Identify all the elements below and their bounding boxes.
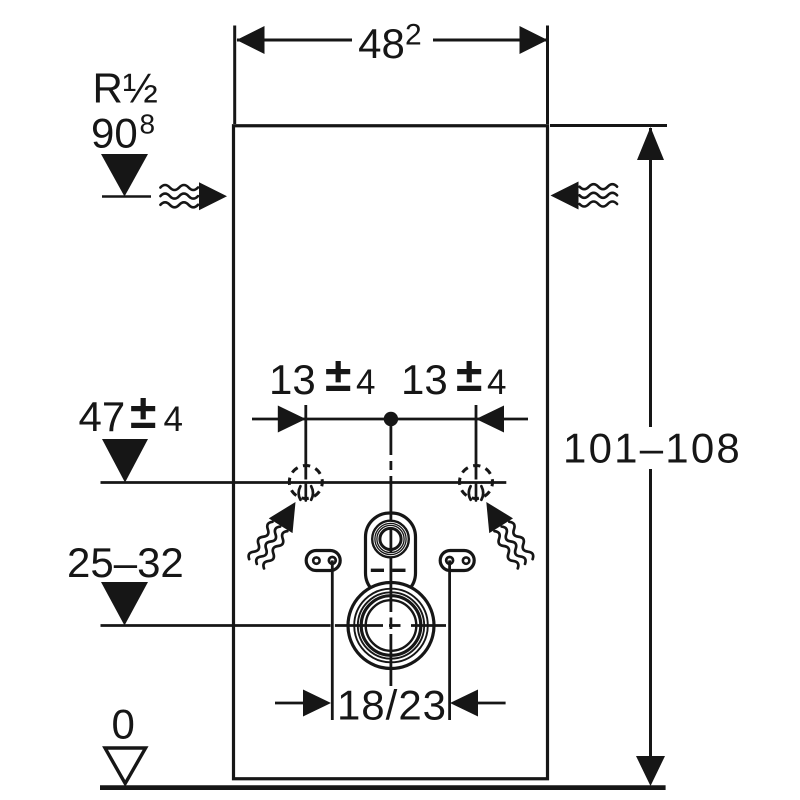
svg-text:13: 13	[269, 356, 316, 403]
svg-text:18/23: 18/23	[337, 682, 447, 729]
svg-text:0: 0	[112, 701, 135, 748]
svg-text:2: 2	[405, 19, 422, 52]
svg-text:48: 48	[358, 20, 405, 67]
svg-text:±: ±	[325, 349, 351, 402]
svg-text:13: 13	[401, 356, 448, 403]
svg-text:4: 4	[164, 400, 183, 439]
svg-text:8: 8	[140, 109, 156, 140]
svg-text:4: 4	[487, 363, 506, 402]
svg-text:47: 47	[79, 393, 126, 440]
svg-text:25–32: 25–32	[67, 539, 184, 586]
svg-text:101–108: 101–108	[563, 425, 742, 472]
svg-text:4: 4	[356, 363, 375, 402]
svg-text:R½: R½	[93, 65, 158, 112]
svg-text:±: ±	[130, 386, 156, 439]
svg-text:±: ±	[456, 349, 482, 402]
svg-text:90: 90	[91, 110, 138, 157]
